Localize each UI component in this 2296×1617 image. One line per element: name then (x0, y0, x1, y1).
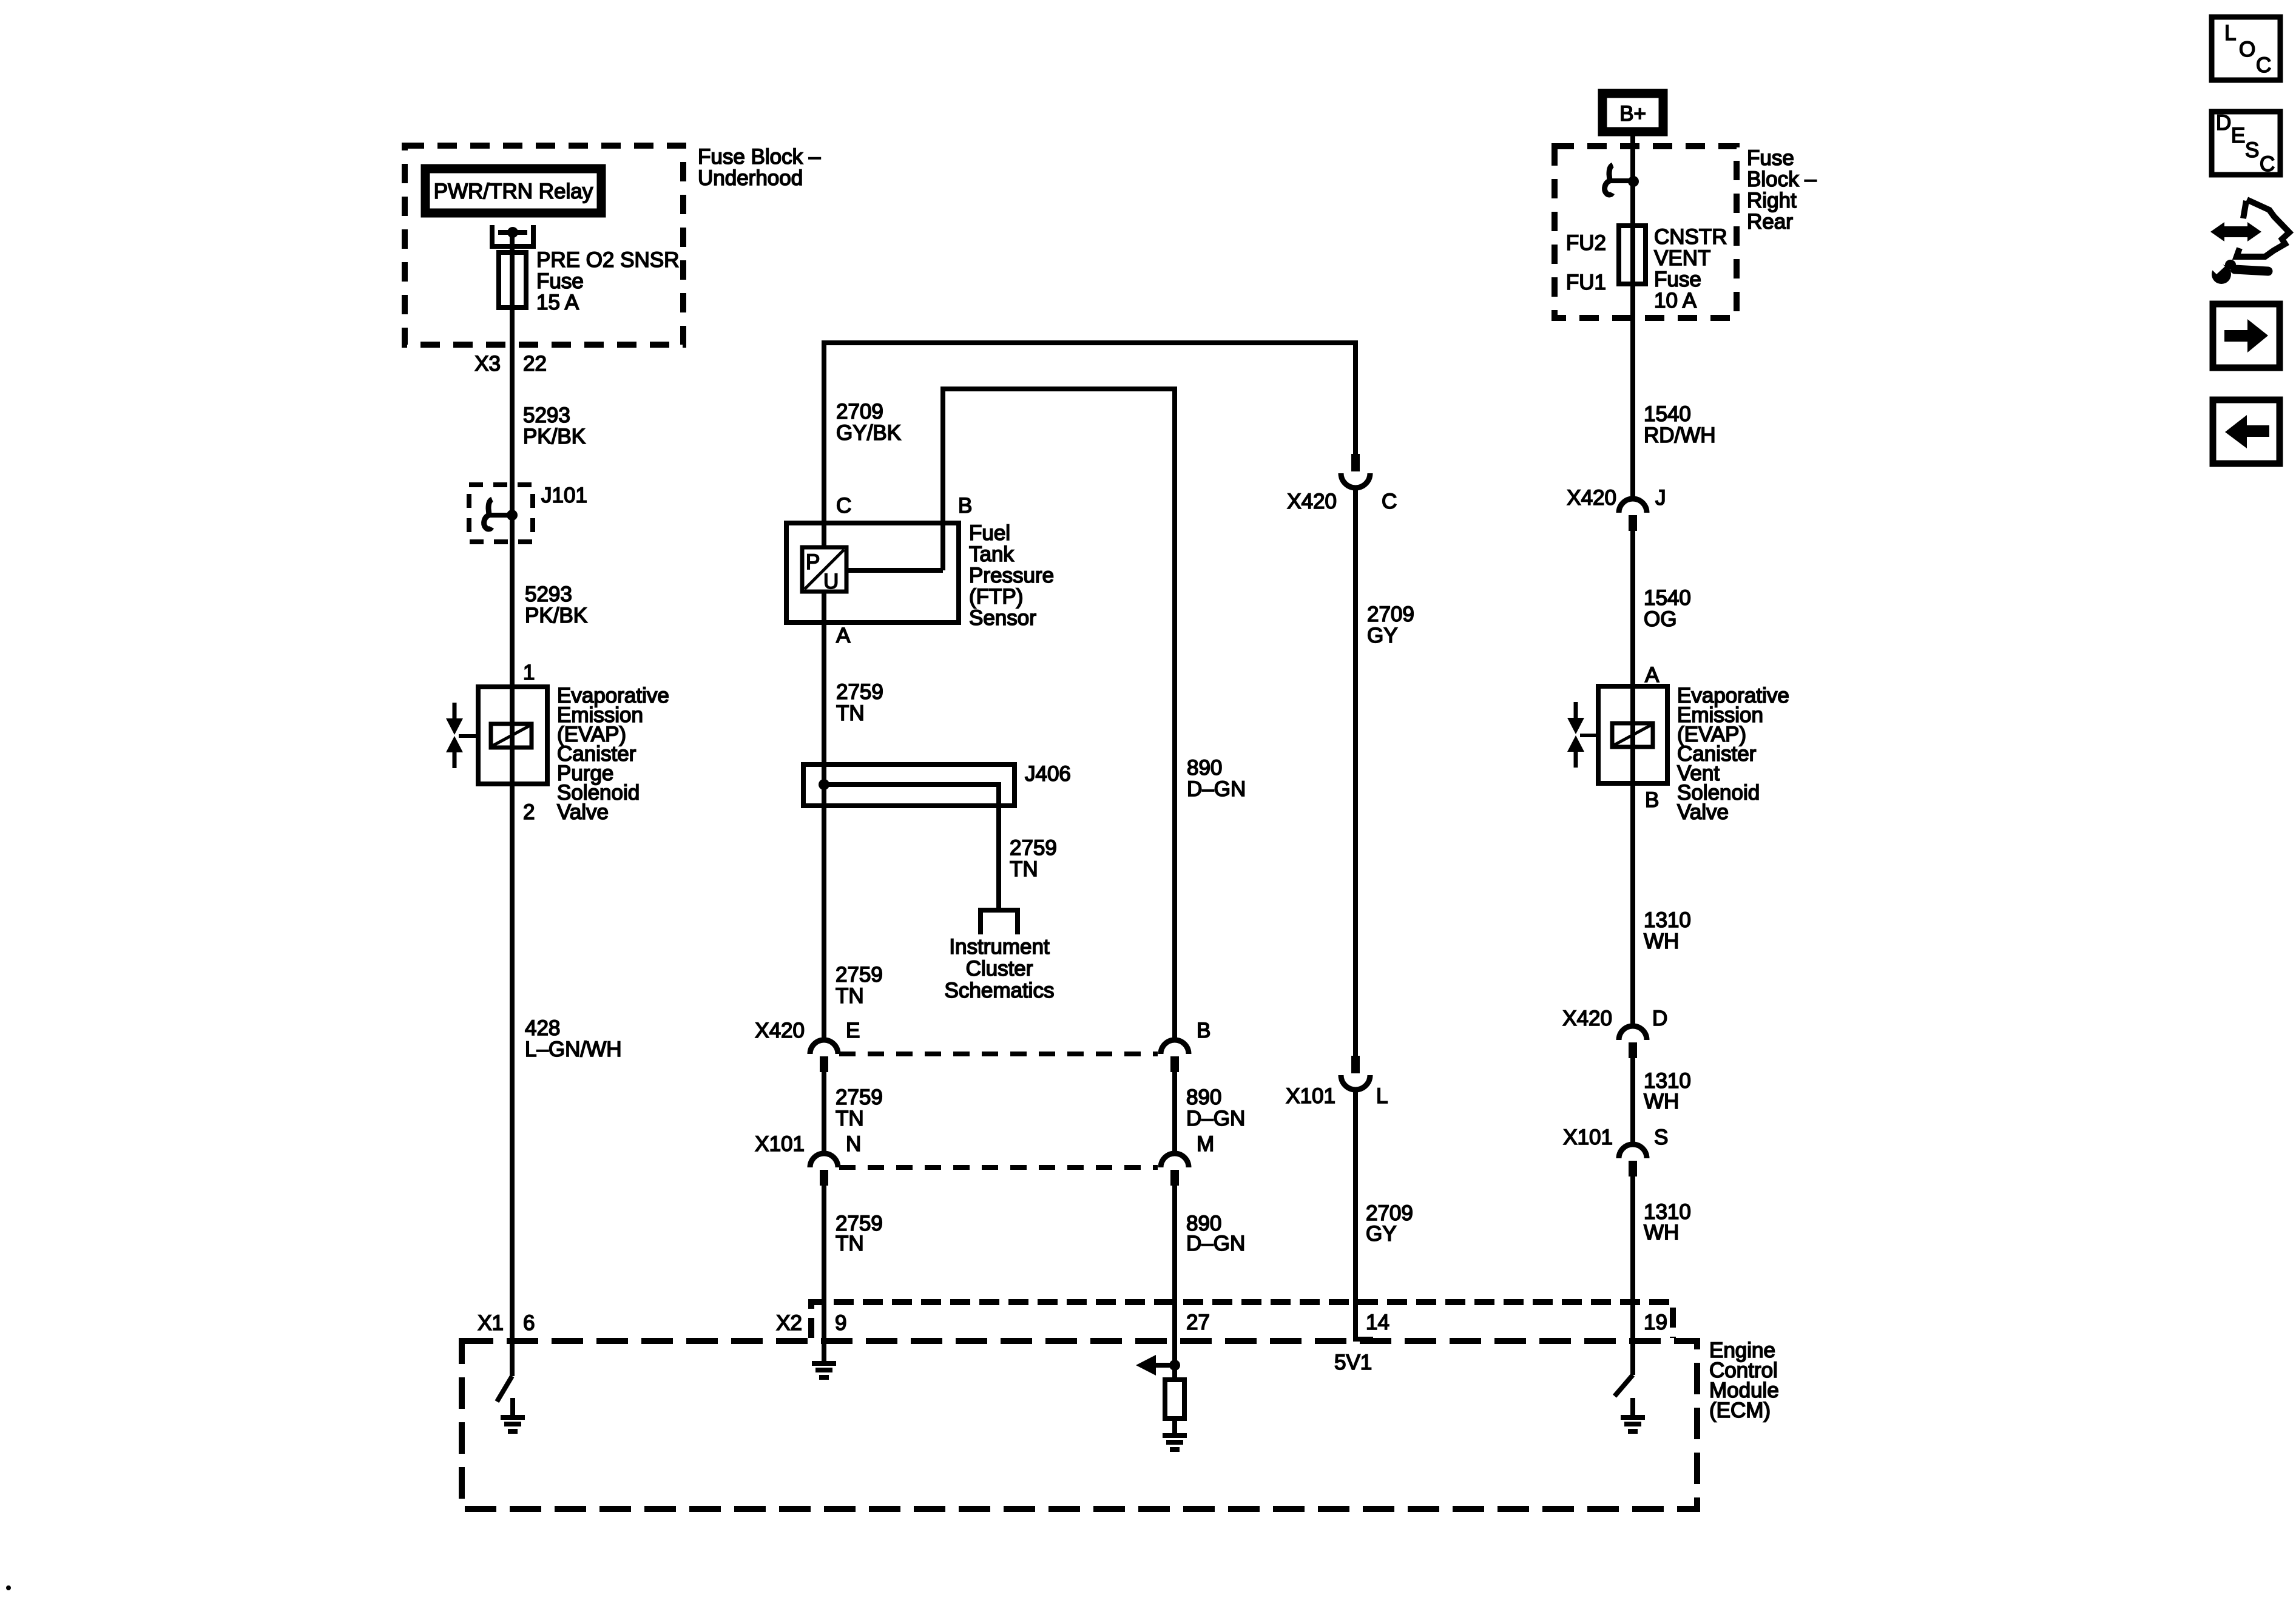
label EVAP Canister Purge Solenoid Valve (557, 684, 669, 824)
svg-text:D: D (2216, 111, 2231, 135)
splice J101 dashed box (469, 485, 533, 542)
svg-text:X1: X1 (478, 1311, 504, 1335)
svg-text:428: 428 (525, 1016, 560, 1040)
svg-text:L–GN/WH: L–GN/WH (525, 1038, 621, 1061)
svg-text:J: J (1655, 486, 1666, 510)
svg-text:Rear: Rear (1747, 210, 1793, 234)
svg-text:Sensor: Sensor (969, 606, 1036, 630)
svg-text:19: 19 (1644, 1311, 1667, 1334)
svg-text:B: B (1197, 1019, 1210, 1042)
connector X420 dashed link E-B (839, 1052, 1158, 1056)
FTP P/U transducer symbol (802, 547, 846, 593)
svg-text:27: 27 (1186, 1311, 1210, 1334)
junction relay terminal dot (507, 227, 518, 238)
wire label 1540 OG (1644, 586, 1691, 631)
wire 1540 right column (1630, 136, 1635, 499)
label Fuse Block Underhood (698, 145, 821, 190)
svg-text:X420: X420 (1562, 1007, 1612, 1030)
connector X420 pin B (1161, 1040, 1189, 1072)
svg-text:D: D (1652, 1007, 1667, 1030)
wire 890 inner run (943, 389, 1175, 1040)
splice J101 crossbar (489, 513, 513, 518)
label EVAP Canister Vent Solenoid Valve (1677, 684, 1789, 824)
junction J406 dot (819, 779, 829, 790)
junction dot fuse block (1628, 176, 1639, 187)
svg-text:E: E (2231, 124, 2245, 147)
svg-text:L: L (2224, 21, 2236, 45)
svg-text:C: C (1382, 490, 1397, 513)
wire label 428 L-GN/WH (525, 1016, 621, 1061)
svg-text:Pressure: Pressure (969, 564, 1054, 587)
wire 2709 GY C to L (1353, 487, 1358, 1056)
FTP internal wire P/U to B (846, 568, 943, 573)
connector X420 pin E (810, 1040, 838, 1072)
svg-text:X101: X101 (1286, 1084, 1335, 1108)
fuse block right rear dashed box (1555, 146, 1737, 318)
splice J101 clip hook (484, 499, 492, 529)
relay pin bracket terminal (492, 225, 533, 246)
svg-text:Block –: Block – (1747, 167, 1817, 191)
svg-text:FU2: FU2 (1566, 231, 1606, 255)
resistor pin 27 (1165, 1380, 1184, 1419)
connector X420 pin D (1619, 1026, 1647, 1058)
ECM internal switch pin 19 (1615, 1375, 1633, 1396)
svg-text:C: C (2260, 152, 2275, 176)
wire inside vent box (1630, 686, 1635, 783)
junction dot pin 27 (1169, 1360, 1180, 1371)
svg-text:C: C (836, 494, 851, 518)
wire left column 5293/428 (510, 232, 515, 1376)
vent valve link line (1580, 734, 1598, 737)
svg-text:X101: X101 (1563, 1126, 1613, 1149)
splice clip in fuse block (1605, 165, 1633, 195)
wire 890 D-GN B to M (1172, 1072, 1177, 1153)
svg-text:E: E (846, 1019, 860, 1042)
svg-text:Schematics: Schematics (945, 979, 1055, 1002)
FTP sensor box (786, 523, 959, 623)
wire 1310 WH (1630, 783, 1635, 1025)
purge valve symbol (446, 703, 463, 768)
svg-text:PK/BK: PK/BK (523, 425, 586, 448)
svg-text:PK/BK: PK/BK (525, 604, 587, 627)
svg-text:PWR/TRN Relay: PWR/TRN Relay (434, 180, 593, 203)
ground pin 27 (1163, 1416, 1187, 1450)
svg-text:J406: J406 (1025, 762, 1071, 786)
svg-text:2759: 2759 (836, 1085, 883, 1109)
svg-text:5293: 5293 (525, 582, 572, 606)
wire 1310 WH S to ECM pin 19 (1630, 1175, 1635, 1375)
power feed B+ box (1602, 93, 1663, 132)
svg-text:B: B (1645, 788, 1659, 812)
svg-text:(ECM): (ECM) (1709, 1399, 1771, 1422)
wire label 890 D-GN lower (1186, 1212, 1245, 1255)
svg-text:D–GN: D–GN (1186, 1232, 1245, 1255)
svg-text:TN: TN (836, 1107, 864, 1130)
off-page connector to instrument cluster (981, 910, 1018, 934)
wire label 2759 TN lower (836, 1212, 883, 1255)
svg-text:890: 890 (1187, 756, 1222, 780)
svg-text:J101: J101 (541, 484, 587, 507)
svg-text:PRE O2 SNSR: PRE O2 SNSR (536, 248, 679, 272)
EVAP canister purge solenoid valve box (478, 687, 547, 784)
wire label 2759 TN below A (836, 680, 883, 725)
svg-text:2709: 2709 (836, 400, 883, 424)
svg-text:TN: TN (836, 701, 865, 725)
svg-text:Valve: Valve (1677, 800, 1729, 824)
ground pin 9 (812, 1344, 836, 1377)
svg-text:22: 22 (523, 352, 547, 376)
svg-text:WH: WH (1644, 930, 1679, 953)
svg-text:Fuse: Fuse (536, 269, 584, 293)
svg-text:GY: GY (1367, 624, 1398, 647)
svg-text:B+: B+ (1619, 102, 1646, 126)
svg-text:X101: X101 (755, 1132, 805, 1156)
svg-text:1540: 1540 (1644, 402, 1691, 426)
svg-text:Tank: Tank (969, 542, 1014, 566)
svg-text:5V1: 5V1 (1334, 1351, 1372, 1374)
svg-text:X420: X420 (1287, 490, 1337, 513)
svg-text:U: U (823, 570, 839, 593)
wire 1540 OG (1630, 530, 1635, 1025)
svg-text:5293: 5293 (523, 403, 570, 427)
wire 2709 GY/BK top run (824, 343, 1356, 547)
label Instrument Cluster Schematics (945, 935, 1055, 1002)
svg-text:2759: 2759 (1010, 836, 1057, 860)
svg-text:N: N (846, 1132, 861, 1156)
connector X101 dashed link N-M (839, 1165, 1158, 1170)
svg-text:Cluster: Cluster (966, 957, 1033, 981)
svg-text:Right: Right (1747, 189, 1797, 212)
wire label 890 D-GN upper (1187, 756, 1246, 801)
svg-text:15 A: 15 A (536, 291, 579, 314)
vent solenoid coil (1612, 723, 1653, 747)
wire label 2709 GY lower (1366, 1201, 1413, 1246)
wire label 2709 GY upper (1367, 603, 1414, 647)
connector X101 pin L (1341, 1056, 1370, 1090)
svg-text:X2: X2 (776, 1311, 802, 1335)
wire label 2709 GY/BK (836, 400, 901, 445)
label PRE O2 SNSR Fuse 15 A (536, 248, 679, 314)
purge valve link line (459, 734, 478, 738)
svg-text:A: A (836, 624, 851, 647)
svg-text:Fuse Block –: Fuse Block – (698, 145, 821, 169)
label Fuse Block Right Rear (1747, 146, 1817, 234)
wire 1310 WH D to S (1630, 1057, 1635, 1144)
svg-text:10 A: 10 A (1654, 289, 1697, 312)
svg-text:890: 890 (1186, 1085, 1221, 1109)
icon harness wrench (2205, 200, 2289, 284)
icon DESC box (2212, 111, 2280, 176)
svg-text:FU1: FU1 (1566, 271, 1606, 294)
wire J406 branch (824, 785, 999, 910)
svg-text:Fuel: Fuel (969, 521, 1010, 545)
svg-text:TN: TN (836, 1232, 864, 1255)
ground pin 19 (1621, 1398, 1645, 1431)
svg-text:2: 2 (523, 800, 535, 824)
connector X101 pin S (1619, 1144, 1647, 1176)
wire label 2759 TN above E (836, 963, 883, 1008)
wire label 1310 WH lower (1644, 1200, 1691, 1244)
svg-text:WH: WH (1644, 1221, 1679, 1244)
svg-text:9: 9 (835, 1311, 846, 1335)
svg-text:(FTP): (FTP) (969, 585, 1023, 609)
svg-text:Valve: Valve (557, 800, 609, 824)
svg-text:WH: WH (1644, 1090, 1679, 1113)
fuse F PRE O2 SNSR 15A (499, 252, 526, 308)
ECM X2 connector dashed strip (811, 1302, 1673, 1338)
connector X101 pin N (810, 1153, 838, 1186)
svg-text:A: A (1645, 663, 1660, 687)
svg-text:Underhood: Underhood (698, 166, 803, 190)
svg-text:Instrument: Instrument (949, 935, 1050, 959)
relay PWR/TRN Relay (425, 169, 601, 213)
svg-text:1: 1 (523, 661, 535, 684)
svg-text:2709: 2709 (1367, 603, 1414, 626)
fuse block underhood dashed box (405, 146, 683, 345)
vent valve symbol (1567, 702, 1584, 768)
svg-text:X3: X3 (474, 352, 501, 376)
svg-text:D–GN: D–GN (1187, 777, 1246, 801)
junction J101 dot (507, 510, 518, 521)
svg-text:CNSTR: CNSTR (1654, 225, 1727, 249)
wire label 5293 PK/BK lower (525, 582, 587, 627)
svg-text:X420: X420 (755, 1019, 805, 1042)
stray dot bottom left (6, 1585, 11, 1590)
svg-text:TN: TN (1010, 857, 1038, 881)
svg-text:O: O (2239, 38, 2255, 61)
svg-text:P: P (806, 550, 820, 574)
ECM internal switch pin 6 (497, 1376, 512, 1402)
label Engine Control Module ECM (1709, 1338, 1779, 1422)
wire label 5293 PK/BK upper (523, 403, 586, 448)
icon arrow left box (2213, 400, 2280, 464)
wire label 890 D-GN middle (1186, 1085, 1245, 1130)
svg-text:S: S (2245, 138, 2259, 162)
connector X420 pin C (1341, 454, 1370, 488)
svg-text:VENT: VENT (1654, 246, 1710, 270)
svg-text:Fuse: Fuse (1654, 268, 1701, 291)
connector X420 pin J (1619, 499, 1647, 531)
svg-text:M: M (1197, 1132, 1214, 1156)
wire 2759 TN E to N (822, 1072, 826, 1153)
wire label 1310 WH upper (1644, 908, 1691, 953)
svg-text:14: 14 (1366, 1311, 1389, 1334)
label CNSTR VENT Fuse 10 A (1654, 225, 1727, 312)
ECM pull-up arrow pin 27 (1136, 1355, 1175, 1376)
wire 2759 TN from FTP A (822, 592, 826, 1040)
svg-text:X420: X420 (1567, 486, 1616, 510)
label Fuel Tank Pressure FTP Sensor (969, 521, 1054, 630)
svg-text:RD/WH: RD/WH (1644, 424, 1716, 447)
wire label 2759 TN middle (836, 1085, 883, 1130)
wire label 1540 RD/WH (1644, 402, 1716, 447)
icon arrow right box (2213, 304, 2280, 368)
svg-text:GY: GY (1366, 1222, 1397, 1246)
svg-text:D–GN: D–GN (1186, 1107, 1245, 1130)
svg-text:C: C (2256, 53, 2271, 77)
EVAP canister vent solenoid valve box (1598, 686, 1667, 783)
svg-text:GY/BK: GY/BK (836, 421, 901, 445)
svg-text:L: L (1376, 1084, 1388, 1108)
icon LOC box (2212, 17, 2280, 80)
wire 2759 TN N to ECM pin 9 (822, 1186, 826, 1363)
wire label 1310 WH middle (1644, 1069, 1691, 1113)
svg-text:2759: 2759 (836, 680, 883, 704)
fuse CNSTR VENT 10A (1619, 226, 1646, 284)
svg-text:1540: 1540 (1644, 586, 1691, 610)
ground pin 6 (501, 1398, 525, 1431)
wire label 2759 TN branch (1010, 836, 1057, 881)
purge solenoid coil (491, 724, 532, 748)
svg-text:1310: 1310 (1644, 908, 1691, 932)
ECM dashed box (462, 1341, 1697, 1509)
svg-text:B: B (958, 494, 972, 518)
splice J406 box (803, 765, 1015, 806)
svg-text:S: S (1654, 1126, 1668, 1149)
connector X101 pin M (1161, 1153, 1189, 1186)
svg-text:2759: 2759 (836, 963, 883, 987)
wire 2709 GY L to ECM pin 14 (1356, 1089, 1373, 1339)
svg-text:Fuse: Fuse (1747, 146, 1794, 170)
svg-text:6: 6 (523, 1311, 535, 1335)
svg-text:OG: OG (1644, 607, 1676, 631)
svg-text:TN: TN (836, 984, 864, 1008)
wire 890 D-GN M to ECM pin 27 (1172, 1186, 1177, 1380)
